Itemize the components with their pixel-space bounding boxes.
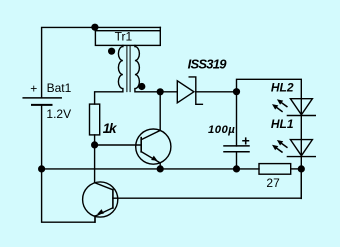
svg-text:100µ: 100µ: [208, 124, 235, 136]
svg-text:1.2V: 1.2V: [46, 107, 71, 121]
svg-text:ISS319: ISS319: [188, 57, 228, 72]
svg-text:Bat1: Bat1: [47, 81, 72, 95]
svg-text:27: 27: [266, 176, 280, 190]
svg-text:Tr1: Tr1: [115, 29, 133, 43]
svg-text:+: +: [30, 81, 37, 95]
svg-text:+: +: [242, 132, 250, 148]
svg-text:HL1: HL1: [271, 117, 294, 131]
svg-text:HL2: HL2: [271, 81, 294, 95]
